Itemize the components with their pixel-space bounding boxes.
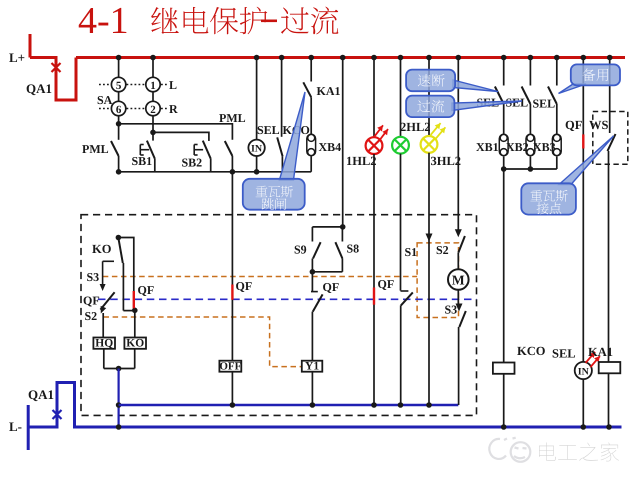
QF column right (to IN) — [582, 58, 584, 362]
svg-text:S8: S8 — [347, 242, 360, 256]
1HL2 lamp column — [373, 58, 375, 138]
S9 S8 feeder — [342, 58, 344, 227]
svg-text:L: L — [169, 78, 177, 92]
SEL switch 3 — [556, 58, 558, 86]
svg-text:1: 1 — [150, 80, 156, 92]
blue drop to L- — [117, 369, 119, 428]
rail3 — [119, 171, 312, 173]
svg-text:SEL: SEL — [257, 123, 280, 137]
svg-text:S2: S2 — [436, 243, 449, 257]
bus junction dots — [116, 55, 122, 61]
svg-text:QF: QF — [236, 279, 253, 293]
blue dashed QF route — [98, 298, 477, 300]
S8 switch — [341, 227, 343, 242]
svg-text:QA1: QA1 — [28, 387, 54, 402]
svg-text:IN: IN — [578, 367, 590, 378]
svg-text:R: R — [169, 102, 178, 116]
orange dashed route S3 — [103, 276, 417, 278]
SEL switch — [281, 58, 283, 137]
svg-text:QF: QF — [378, 277, 395, 291]
SEL switch 2 — [529, 58, 531, 86]
svg-text:L+: L+ — [9, 50, 25, 65]
watermark text — [539, 443, 556, 462]
svg-text:Y1: Y1 — [305, 361, 319, 373]
join below HQ KO — [103, 349, 105, 369]
KCO coil column — [503, 169, 505, 363]
3HL2 lamp column — [428, 58, 430, 137]
svg-text:3HL2: 3HL2 — [431, 154, 462, 168]
svg-text:XB2: XB2 — [506, 140, 529, 154]
3HL2 illum arrows — [431, 123, 441, 135]
IN relay lamp SEL — [256, 58, 258, 140]
S3 contact — [459, 311, 466, 327]
svg-text:QF: QF — [565, 118, 583, 132]
XB2 connector — [526, 134, 535, 156]
XB3 connector — [552, 134, 561, 156]
svg-text:HQ: HQ — [95, 338, 113, 350]
S1 arrow — [426, 234, 433, 242]
svg-text:QF: QF — [323, 280, 340, 294]
S3 selector — [103, 260, 114, 262]
svg-text:OFF: OFF — [219, 361, 241, 373]
QA1 breaker cross bottom — [53, 410, 62, 419]
KO contact — [118, 238, 122, 263]
OFF column — [231, 172, 233, 361]
svg-text:SA: SA — [97, 93, 113, 107]
motor M — [448, 269, 469, 290]
svg-text:2HL2: 2HL2 — [400, 120, 431, 134]
svg-text:L-: L- — [9, 419, 22, 434]
KA1 coil — [599, 362, 621, 373]
svg-text:KO: KO — [126, 338, 144, 350]
S2 M S3 column — [457, 58, 459, 233]
HQ coil box — [93, 338, 115, 349]
svg-text:S3: S3 — [87, 270, 100, 284]
svg-text:SEL: SEL — [552, 347, 576, 361]
SA contact circle 1 — [146, 77, 160, 91]
svg-text:PML: PML — [82, 142, 109, 156]
L- negative bus — [28, 383, 621, 451]
svg-text:M: M — [452, 273, 465, 288]
SEL switch 1 — [503, 58, 505, 86]
QF contact left — [100, 292, 114, 309]
svg-text:SB2: SB2 — [182, 156, 203, 170]
L+ positive bus — [30, 34, 625, 100]
rail2 from SA2 — [153, 132, 209, 140]
S2 contact — [458, 236, 465, 253]
QA1 breaker cross top — [52, 63, 61, 72]
PML switch right — [225, 141, 233, 156]
callout heavy gas contact — [521, 136, 613, 215]
svg-text:S1: S1 — [405, 245, 418, 259]
2HL2 lamp column — [400, 58, 402, 137]
QF switch on Y1 branch — [311, 272, 313, 292]
SA contact circle 6 — [111, 101, 125, 115]
svg-text:SB1: SB1 — [132, 154, 153, 168]
rail1 from SA6 — [119, 124, 233, 140]
SA contact circle 2 — [146, 101, 160, 115]
SB1 pushbutton — [152, 132, 154, 140]
XB bottom rail — [504, 168, 557, 170]
svg-text:SEL: SEL — [533, 97, 556, 111]
orange dashed route S2 to Y1 — [104, 317, 302, 367]
PML switch left — [118, 124, 120, 140]
S2 arrow — [98, 306, 106, 315]
red closed QF segment right — [582, 134, 584, 148]
SB2 pushbutton — [208, 140, 210, 142]
svg-text:XB4: XB4 — [319, 140, 342, 154]
watermark logo chick — [489, 438, 530, 462]
orange dashed box S1/S2/M/S3 — [417, 243, 458, 318]
WS dashed box — [593, 112, 628, 165]
WS contact — [608, 134, 616, 151]
QF contact 2HL2 — [401, 290, 409, 292]
svg-text:QF: QF — [138, 283, 155, 297]
KCO coil — [493, 363, 515, 374]
red arrows on IN — [586, 352, 596, 363]
svg-text:IN: IN — [251, 144, 263, 155]
SA column wires — [118, 58, 120, 78]
svg-text:2: 2 — [150, 104, 156, 116]
XB4 connector — [307, 134, 316, 156]
svg-text:5: 5 — [116, 80, 122, 92]
WS switch column — [609, 58, 611, 134]
Y1 coil box — [302, 361, 323, 372]
svg-text:4-1: 4-1 — [78, 0, 129, 42]
callout bei yong (spare) — [559, 64, 621, 93]
SA contact circle 5 — [111, 77, 125, 91]
XB1 connector — [499, 134, 508, 156]
svg-text:XB1: XB1 — [476, 140, 499, 154]
KO HQ block — [116, 235, 122, 241]
svg-text:S3: S3 — [445, 303, 458, 317]
S9 switch — [311, 227, 313, 242]
QF bypass wire — [118, 238, 133, 311]
svg-text:KA1: KA1 — [588, 345, 613, 359]
KA1 switch top — [310, 58, 312, 82]
KO coil box — [134, 310, 136, 337]
svg-text:PML: PML — [219, 111, 246, 125]
svg-text:KCO: KCO — [517, 344, 546, 358]
main dashed box — [81, 215, 477, 416]
callout su duan (instantaneous trip) — [406, 70, 498, 92]
SA dotted links — [99, 84, 111, 86]
svg-text:S9: S9 — [294, 243, 307, 257]
svg-text:S2: S2 — [85, 309, 98, 323]
callout heavy gas trip — [243, 92, 305, 210]
svg-text:KA1: KA1 — [317, 84, 341, 98]
inner blue rail — [119, 404, 459, 407]
other red closed segments — [133, 291, 135, 308]
svg-text:QF: QF — [83, 294, 100, 308]
svg-text:KO: KO — [92, 242, 112, 256]
svg-text:1HL2: 1HL2 — [346, 154, 377, 168]
1HL2 illum arrows — [374, 125, 383, 137]
svg-text:WS: WS — [589, 118, 609, 132]
IN relay bottom — [575, 362, 592, 379]
svg-text:6: 6 — [116, 104, 122, 116]
svg-text:QA1: QA1 — [26, 81, 52, 96]
svg-text:XB3: XB3 — [533, 140, 556, 154]
callout guo liu (overcurrent) — [406, 96, 522, 118]
S3 arrow — [456, 304, 463, 312]
OFF box — [219, 361, 241, 372]
